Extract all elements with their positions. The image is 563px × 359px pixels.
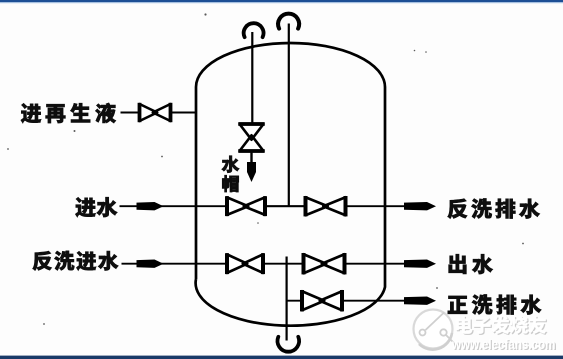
wire: line2 out to the right: [345, 263, 408, 265]
arrow into vessel (backwash): [137, 260, 164, 268]
wire: backwash inlet left: [122, 263, 197, 265]
scan noise dots: [204, 13, 206, 15]
vessel shell (ion-exchanger tank): [196, 43, 385, 326]
label 进再生液: [21, 103, 41, 123]
valve V5: [302, 291, 342, 310]
top blue border bar: [0, 0, 563, 2]
svg-text:www.elecfans.com: www.elecfans.com: [451, 337, 555, 352]
vent pipe A (left riser): [251, 32, 253, 125]
arrow into vessel (inlet): [137, 202, 164, 210]
bottom blue border bar: [0, 356, 563, 359]
watermark logo circle: [414, 310, 454, 350]
vent hook A: [244, 23, 264, 37]
vent hook B: [278, 14, 299, 29]
valve V1: [227, 197, 265, 215]
distributor stem below valve: [250, 151, 252, 164]
arrow out (outlet): [404, 260, 436, 268]
label 进水: [75, 197, 95, 217]
wire: line3 from drain pipe: [286, 300, 303, 302]
wire: line1 inside vessel: [196, 205, 306, 207]
wire: line2 inside vessel: [196, 263, 304, 265]
label 反洗进水: [33, 251, 52, 270]
valve V3: [227, 254, 263, 273]
valve V0v (vertical, on riser A): [240, 124, 264, 151]
wire: inlet line left: [120, 205, 197, 207]
label 反洗排水: [448, 199, 468, 219]
arrow out (backwash drain): [404, 202, 436, 210]
watermark text 电子发烧友: [457, 317, 474, 335]
valve V4: [304, 254, 345, 273]
label 正洗排水: [448, 296, 467, 314]
vent pipe B upper (center riser): [288, 24, 290, 207]
lower drain pipe (center, below line2): [286, 257, 288, 341]
label 出水: [449, 254, 467, 274]
valve V0 (regenerant): [140, 104, 171, 121]
wire: line3 out: [342, 300, 407, 302]
distributor nozzle (solid down arrow): [247, 162, 256, 182]
wire: regenerant line: [121, 112, 140, 114]
valve V2: [306, 197, 346, 215]
bottom drain hook: [278, 337, 300, 352]
arrow out (rinse drain): [404, 297, 436, 305]
wire: line1 to right wall and out: [346, 205, 408, 207]
small label 水帽: [222, 156, 240, 173]
